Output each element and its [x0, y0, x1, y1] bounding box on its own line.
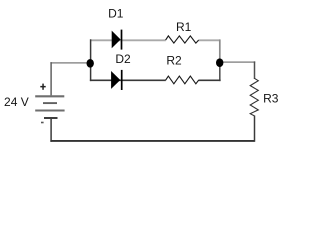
wire D2 branch (horizontal): [90, 79, 166, 81]
svg-text:D2: D2: [115, 52, 131, 66]
battery V1 plate 3 (long): [35, 110, 64, 112]
wire bottom return: [50, 140, 254, 142]
battery V1 plate 2 (short): [43, 102, 57, 104]
node right junction dot: [216, 58, 223, 67]
resistor R1: [166, 36, 199, 43]
wire right rail lower (R3 bottom to bottom wire): [254, 116, 256, 142]
battery plus sign: [40, 84, 45, 90]
battery minus sign: [41, 122, 44, 124]
node left junction dot: [87, 59, 94, 68]
battery V1 plate 1 (long, +): [35, 95, 64, 97]
resistor R2: [166, 76, 199, 84]
wire right rail upper (corner down to R3): [254, 61, 256, 79]
wire left feed (battery to left node): [50, 62, 90, 64]
diode D2 cathode bar: [121, 70, 123, 90]
wire right vertical upper (top branch to right node): [219, 39, 221, 62]
svg-text:R3: R3: [263, 92, 279, 106]
svg-text:D1: D1: [108, 7, 124, 21]
battery V1 plate 4 (short, -): [44, 117, 58, 119]
svg-text:R1: R1: [176, 20, 192, 34]
wire top branch (gray): [90, 39, 166, 41]
svg-text:R2: R2: [166, 54, 182, 68]
wire left vertical (top branch to D2 branch): [90, 39, 92, 81]
svg-text:24 V: 24 V: [4, 95, 29, 109]
wire right feed (right node to R3 corner): [220, 61, 256, 63]
wire right vertical lower (right node to D2 branch): [219, 63, 221, 81]
diode D2 triangle: [111, 71, 120, 89]
resistor R3 (vertical): [250, 78, 258, 116]
diode D1 cathode bar: [121, 30, 123, 50]
wire left rail lower (battery down to bottom wire): [50, 119, 52, 142]
diode D1 triangle: [112, 31, 121, 49]
wire left rail upper (feed down to battery): [50, 62, 52, 95]
